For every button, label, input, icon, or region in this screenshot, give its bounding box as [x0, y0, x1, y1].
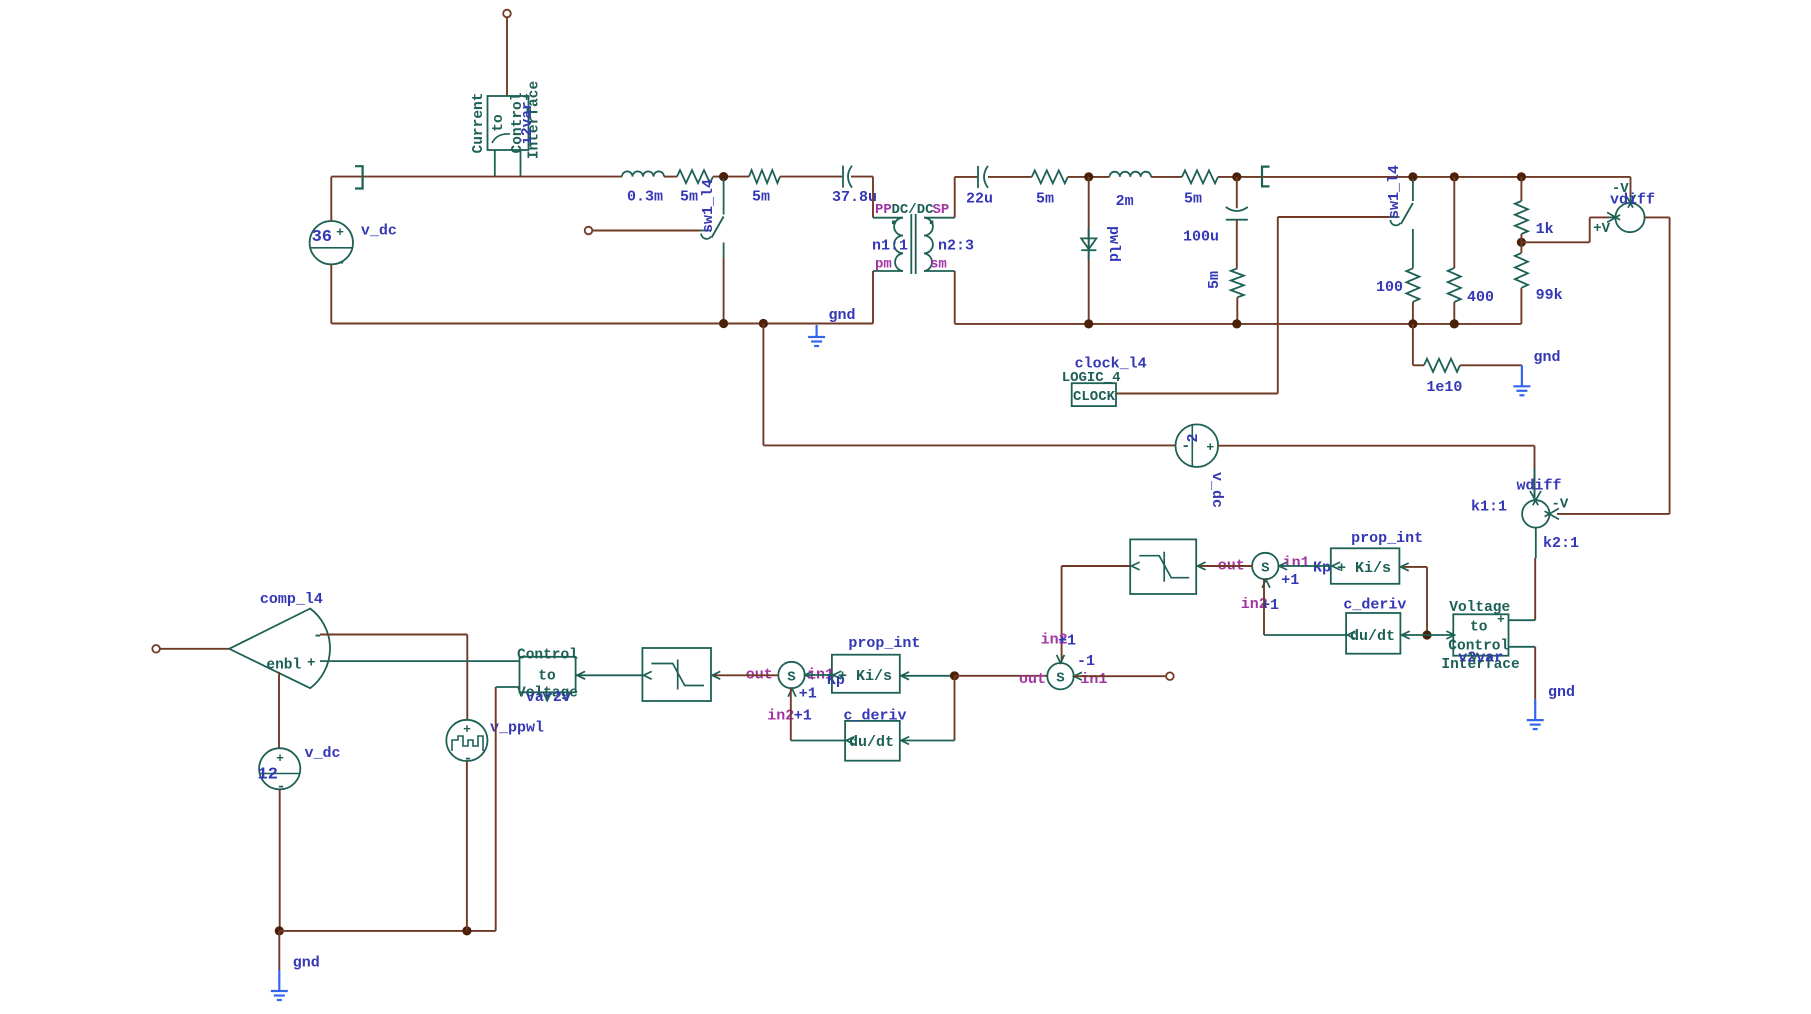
svg-text:v_dc: v_dc	[361, 223, 397, 240]
wire (S2 in1 to port)	[1074, 675, 1166, 677]
svg-text:c_deriv: c_deriv	[1343, 597, 1406, 614]
wire (Ki/s1 input)	[900, 672, 955, 680]
svg-text:to: to	[538, 669, 556, 685]
node	[1232, 319, 1241, 328]
svg-text:du/dt: du/dt	[849, 734, 894, 751]
wire (S1 out to sat1)	[711, 671, 778, 679]
wire (to vdiff -V)	[1630, 177, 1632, 196]
svg-text:i2var: i2var	[520, 101, 536, 145]
diode D1 pwld	[1081, 177, 1122, 324]
wire (to v2var block)	[1427, 631, 1455, 639]
switch sw1_l4 (secondary)	[1278, 165, 1413, 268]
svg-text:in1: in1	[1283, 555, 1310, 572]
resistor R8 1k	[1515, 177, 1554, 238]
svg-text:CLOCK: CLOCK	[1073, 389, 1116, 405]
wire (bottom rail secondary)	[955, 323, 1522, 325]
svg-text:v_ppwl: v_ppwl	[490, 720, 544, 737]
wire	[1520, 288, 1522, 324]
svg-text:+1: +1	[799, 686, 817, 703]
svg-text:+: +	[276, 751, 284, 766]
voltmeter vdiff	[1593, 181, 1655, 237]
saturation block (right)	[1130, 539, 1196, 594]
svg-text:+1: +1	[1058, 633, 1076, 650]
ground (control rail)	[271, 931, 288, 1000]
svg-text:Kp: Kp	[1313, 560, 1331, 577]
svg-text:37.8u: 37.8u	[832, 189, 877, 206]
svg-text:100: 100	[1376, 279, 1403, 296]
PI block prop_int (left, Ki/s)	[832, 635, 921, 693]
wire (vdiff out to k1)	[1557, 217, 1670, 514]
node (divider mid)	[1517, 238, 1526, 247]
resistor R4 5m	[1182, 170, 1218, 207]
wire (C1 to transformer)	[851, 177, 873, 218]
svg-text:Control: Control	[517, 648, 578, 664]
wire (S3 in1 from Ki/s)	[1279, 562, 1341, 570]
source V4 v_ppwl	[446, 720, 544, 768]
wire	[1412, 302, 1414, 324]
wire	[780, 176, 842, 178]
wire (V1 top to rail)	[330, 177, 332, 221]
node	[1408, 172, 1417, 181]
port (top input of current sensor)	[503, 10, 511, 96]
wire (comp + input)	[320, 660, 520, 662]
svg-text:+: +	[1206, 440, 1214, 455]
svg-text:out: out	[1019, 671, 1046, 688]
wire	[1400, 631, 1427, 639]
svg-text:36: 36	[312, 228, 332, 247]
svg-text:pm: pm	[875, 257, 892, 273]
resistor R6 100	[1376, 268, 1419, 301]
svg-text:n1:1: n1:1	[872, 238, 908, 255]
wire (du/dt1 out to S1 in2)	[791, 689, 855, 745]
current probe bracket	[355, 166, 363, 188]
svg-text:gnd: gnd	[293, 955, 320, 972]
svg-text:+1: +1	[1281, 572, 1299, 589]
gnd label	[829, 307, 856, 324]
svg-text:99k: 99k	[1536, 287, 1563, 304]
wire	[988, 176, 1032, 178]
node (tap to control)	[759, 319, 768, 328]
svg-text:5m: 5m	[752, 189, 770, 206]
svg-text:vdiff: vdiff	[1610, 192, 1655, 209]
svg-text:comp_l4: comp_l4	[260, 591, 323, 608]
switch sw1_l4 (primary)	[589, 179, 724, 258]
ground (v2var)	[1527, 699, 1544, 729]
wire (sat2 out)	[1062, 562, 1140, 662]
wire	[1236, 297, 1238, 324]
resistor R2 5m	[749, 170, 780, 205]
wire	[1218, 176, 1262, 178]
clock block U2 (LOGIC_4 CLOCK, clock_l4)	[1062, 356, 1147, 407]
svg-text:1k: 1k	[1536, 221, 1554, 238]
svg-text:sw1_l4: sw1_l4	[1386, 165, 1403, 219]
svg-text:S: S	[1056, 671, 1064, 687]
voltage source V3 v_dc 12	[258, 745, 341, 796]
svg-text:2m: 2m	[1116, 193, 1134, 210]
inductor L1 0.3m	[622, 171, 664, 205]
summer S1 (left loop)	[746, 662, 845, 725]
svg-text:5m: 5m	[680, 189, 698, 206]
wire (v_dc2 to k1 top)	[1218, 446, 1534, 501]
capacitor C2 22u	[966, 166, 993, 208]
port (comparator input)	[152, 645, 229, 653]
svg-text:prop_int: prop_int	[848, 635, 920, 652]
comparator comp_l4	[229, 591, 330, 688]
node	[1408, 319, 1417, 328]
resistor R7 400	[1448, 177, 1494, 324]
svg-text:du/dt: du/dt	[1350, 628, 1395, 645]
node	[275, 926, 284, 935]
capacitor C3 100u	[1183, 177, 1248, 269]
wire (sat1 out to var2v)	[576, 671, 652, 679]
node	[1517, 172, 1526, 181]
wire (primary bottom)	[872, 271, 874, 324]
svg-text:to: to	[491, 114, 507, 132]
wire (k2 to v2var +)	[1509, 528, 1536, 621]
transformer T1 (DC/DC, n1:1 / n2:3)	[872, 202, 974, 274]
svg-text:sw1_l4: sw1_l4	[700, 179, 717, 233]
svg-text:gnd: gnd	[829, 307, 856, 324]
svg-text:+ Ki/s: + Ki/s	[1337, 560, 1391, 577]
wire (secondary winding bottom)	[954, 271, 956, 324]
svg-text:SP: SP	[933, 202, 950, 218]
ground (primary rail)	[808, 325, 825, 346]
wire	[1151, 176, 1182, 178]
node (diode tap)	[1084, 172, 1093, 181]
wire (V1 bottom)	[330, 264, 332, 323]
resistor R1 5m	[677, 170, 713, 205]
voltage source V2 v_dc 2	[1176, 424, 1226, 508]
svg-text:S: S	[787, 670, 795, 686]
summer k1/k2 (wdiff)	[1471, 468, 1579, 552]
svg-text:pwld: pwld	[1105, 226, 1122, 262]
svg-text:clock_l4: clock_l4	[1075, 356, 1147, 373]
node	[719, 319, 728, 328]
svg-text:+1: +1	[794, 708, 812, 725]
port (loop input)	[1166, 672, 1174, 680]
node (output cap tap)	[1232, 172, 1241, 181]
wire (junction down)	[900, 676, 955, 745]
svg-text:5m: 5m	[1184, 191, 1202, 208]
wire (secondary top)	[955, 177, 978, 218]
summer S3 (right loop)	[1218, 553, 1331, 614]
wire (bottom rail primary)	[331, 323, 873, 325]
wire (top rail left)	[331, 176, 622, 178]
saturation block (left)	[642, 648, 711, 701]
summer S2 (inverter)	[1019, 632, 1107, 690]
svg-text:Current: Current	[471, 93, 487, 154]
node	[1422, 630, 1431, 639]
port (sw1_l4 control)	[585, 227, 593, 235]
gnd label	[1548, 684, 1575, 701]
wire (S1 in1 from Ki/s)	[805, 671, 842, 679]
svg-text:22u: 22u	[966, 191, 993, 208]
wire (v_ppwl bottom)	[466, 761, 468, 931]
wire (enbl)	[278, 672, 280, 749]
wire (+V path)	[1521, 217, 1609, 242]
svg-text:+ Ki/s: + Ki/s	[838, 668, 892, 685]
wire (v2var - to gnd)	[1509, 647, 1536, 699]
PI block prop_int (right, Ki/s)	[1331, 530, 1423, 584]
wire	[713, 176, 749, 178]
resistor R5 5m (vertical)	[1206, 268, 1244, 297]
svg-text:2: 2	[1185, 433, 1202, 442]
capacitor C1 37.8u	[832, 166, 877, 206]
svg-text:k2:1: k2:1	[1543, 535, 1579, 552]
wire (comp - input)	[320, 635, 467, 720]
svg-text:PP: PP	[875, 202, 892, 218]
svg-text:+: +	[1497, 612, 1505, 627]
svg-text:gnd: gnd	[1548, 684, 1575, 701]
svg-text:enbl: enbl	[266, 658, 301, 674]
wire (top rail to right)	[1262, 176, 1631, 178]
svg-text:prop_int: prop_int	[1351, 530, 1423, 547]
svg-text:in1: in1	[1080, 671, 1107, 688]
svg-text:+: +	[523, 91, 530, 105]
svg-text:+V: +V	[1593, 221, 1610, 237]
node	[1450, 172, 1459, 181]
svg-text:n2:3: n2:3	[938, 238, 974, 255]
interface block U3 (Voltage to Control, v2var)	[1441, 600, 1519, 673]
svg-text:0.3m: 0.3m	[627, 189, 663, 206]
svg-text:+: +	[463, 722, 471, 737]
svg-text:100u: 100u	[1183, 229, 1219, 246]
svg-text:v_dc: v_dc	[305, 745, 341, 762]
derivative block c_deriv (left, du/dt)	[844, 708, 907, 761]
svg-text:+: +	[336, 225, 344, 240]
node	[1450, 319, 1459, 328]
wire (var2v bottom lead)	[496, 687, 520, 931]
node	[950, 671, 959, 680]
resistor R10 1e10	[1413, 324, 1522, 396]
ground (1e10)	[1513, 365, 1530, 395]
svg-text:5m: 5m	[1036, 191, 1054, 208]
svg-text:5m: 5m	[1206, 271, 1223, 289]
svg-text:12: 12	[258, 766, 278, 785]
wire (control tap to v_dc2)	[763, 324, 1175, 446]
gnd label	[1534, 349, 1561, 366]
svg-text:v2var: v2var	[1458, 649, 1503, 666]
derivative block c_deriv (right, du/dt)	[1343, 597, 1406, 654]
svg-text:wdiff: wdiff	[1517, 478, 1562, 495]
wire	[1068, 176, 1110, 178]
svg-text:-: -	[336, 255, 345, 272]
svg-text:-V: -V	[1552, 497, 1569, 513]
svg-text:1e10: 1e10	[1426, 379, 1462, 396]
svg-text:S: S	[1261, 561, 1269, 577]
svg-text:to: to	[1470, 620, 1488, 636]
wire (S2 out to junction)	[955, 675, 1048, 677]
svg-text:c_deriv: c_deriv	[844, 708, 907, 725]
wire	[664, 176, 677, 178]
bracket (output probe)	[1262, 167, 1270, 187]
wire (switch to rail)	[723, 258, 725, 324]
wire	[1520, 234, 1522, 253]
resistor R3 5m	[1032, 170, 1068, 207]
svg-text:-1: -1	[1077, 653, 1095, 670]
svg-text:-: -	[313, 627, 323, 645]
svg-text:v_dc: v_dc	[1208, 472, 1225, 508]
wire (control gnd rail)	[279, 930, 495, 932]
wire (du/dt2 out to S3 in2)	[1264, 579, 1355, 639]
interface block U4 (Control to Voltage, var2v)	[517, 648, 578, 706]
svg-text:DC/DC: DC/DC	[892, 202, 935, 218]
voltage source V1 v_dc 36	[310, 221, 397, 272]
wire (S3 out to sat2)	[1196, 562, 1252, 570]
svg-text:sm: sm	[930, 257, 947, 273]
inductor L2 2m	[1110, 172, 1152, 210]
svg-text:k1:1: k1:1	[1471, 499, 1507, 516]
resistor R9 99k	[1515, 253, 1563, 304]
node	[462, 926, 471, 935]
svg-text:400: 400	[1467, 289, 1494, 306]
wire (Ki/s2 input)	[1399, 563, 1427, 635]
node	[1084, 319, 1093, 328]
node (switch tap)	[719, 172, 728, 181]
current sensor U1 (Current to Control Interface)	[471, 81, 543, 177]
wire (clock feed)	[1116, 217, 1278, 394]
wire (V3 to rail)	[279, 789, 281, 931]
svg-text:gnd: gnd	[1534, 349, 1561, 366]
svg-text:-: -	[463, 751, 472, 768]
gnd label	[293, 955, 320, 972]
svg-text:+: +	[307, 656, 315, 672]
